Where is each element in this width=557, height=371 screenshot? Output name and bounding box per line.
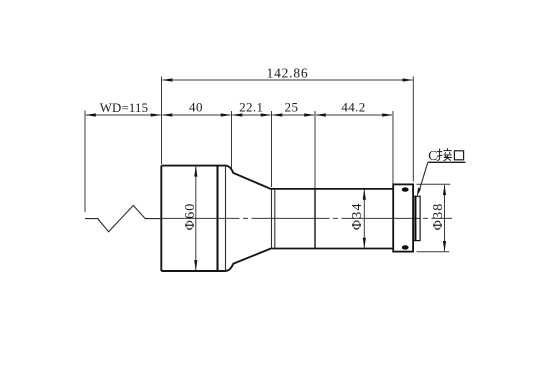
svg-text:Φ34: Φ34 bbox=[350, 202, 365, 230]
barrel joint double line x=271.5 bbox=[271, 189, 273, 249]
leader label C bbox=[428, 148, 437, 163]
extension line x=231.5 bbox=[231, 111, 233, 171]
dimension Φ34 text bbox=[350, 202, 365, 230]
dimension 142.86 text bbox=[267, 65, 309, 80]
barrel joint line x=315 bbox=[314, 189, 316, 249]
svg-text:Φ60: Φ60 bbox=[183, 202, 198, 230]
dimension 25 text bbox=[285, 99, 299, 114]
svg-text:C: C bbox=[428, 148, 437, 163]
svg-text:25: 25 bbox=[285, 99, 299, 114]
svg-text:44.2: 44.2 bbox=[341, 99, 365, 114]
dimension WD=115 line bbox=[85, 113, 162, 116]
leader label 口 glyph bbox=[454, 151, 463, 160]
dimension 40 text bbox=[189, 99, 203, 114]
dimension 22.1 text bbox=[239, 99, 263, 114]
dimension 44.2 line bbox=[315, 113, 393, 116]
dimension Φ38 vertical bbox=[443, 184, 446, 252]
flange screw hole top bbox=[402, 187, 409, 191]
rear flange plate Φ38 bbox=[393, 184, 413, 251]
svg-text:WD=115: WD=115 bbox=[100, 101, 148, 115]
extension line x=315 bbox=[314, 111, 316, 188]
dimension Φ38 text bbox=[431, 202, 446, 230]
leader line C-mount bbox=[417, 162, 466, 197]
dimension 142.86 line bbox=[162, 78, 414, 81]
dimension Φ60 vertical bbox=[194, 166, 197, 271]
front cylinder body Φ60 bbox=[161, 166, 271, 271]
centerline break zigzag bbox=[85, 205, 162, 231]
leader label 接 glyph bbox=[437, 148, 452, 161]
dimension Φ38 extension bottom bbox=[417, 251, 450, 253]
dimension 25 line bbox=[272, 113, 316, 116]
svg-text:Φ38: Φ38 bbox=[431, 202, 446, 230]
dimension 44.2 text bbox=[341, 99, 365, 114]
extension line flange left x=393 bbox=[392, 111, 394, 184]
flange screw hole bottom bbox=[402, 245, 409, 249]
front cylinder ring line x=217.5 bbox=[217, 166, 219, 271]
barrel joint double line x=274.8 bbox=[274, 189, 276, 249]
dimension Φ60 text bbox=[183, 202, 198, 230]
C-mount ring bbox=[414, 196, 420, 240]
optical axis centerline bbox=[162, 217, 453, 219]
svg-text:40: 40 bbox=[189, 99, 203, 114]
dimension Φ34 vertical bbox=[363, 189, 366, 249]
svg-text:142.86: 142.86 bbox=[267, 65, 309, 80]
extension line rear end x=413.3 bbox=[412, 77, 414, 182]
dimension WD=115 text bbox=[100, 101, 148, 115]
dimension 22.1 line bbox=[232, 113, 272, 116]
extension line x=271.5 bbox=[271, 111, 273, 187]
dimension Φ38 extension top bbox=[417, 183, 451, 185]
extension line front face x=161.5 bbox=[161, 77, 163, 165]
svg-text:22.1: 22.1 bbox=[239, 99, 263, 114]
mid barrel Φ34 bbox=[272, 189, 394, 249]
dimension 40 line bbox=[162, 113, 232, 116]
extension line object plane x=85 bbox=[84, 111, 86, 213]
front cylinder ring line x=225.5 bbox=[225, 166, 227, 271]
